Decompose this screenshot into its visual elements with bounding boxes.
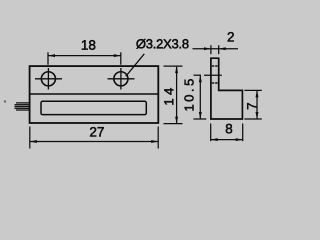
dimension 10.5 bbox=[193, 75, 221, 119]
dimension 2 label bbox=[228, 32, 234, 41]
front view body outline bbox=[30, 66, 159, 123]
side view hole hidden lines bbox=[212, 66, 218, 83]
side view L bracket bbox=[211, 58, 243, 119]
dimension 7 bbox=[244, 90, 261, 119]
dimension 18 label bbox=[82, 40, 95, 50]
dimension 2 bbox=[193, 45, 239, 54]
front view flange bend line bbox=[30, 93, 159, 95]
dimension 7 label bbox=[247, 103, 256, 109]
dimension 18 bbox=[48, 52, 121, 64]
dimension 27 label bbox=[90, 127, 104, 136]
slot window bbox=[41, 101, 146, 114]
mounting hole right bbox=[108, 68, 135, 90]
hole callout label bbox=[136, 39, 188, 49]
dimension 27 bbox=[30, 127, 158, 149]
wire leads bbox=[15, 103, 30, 110]
dimension 14 label bbox=[164, 88, 173, 105]
dimension 10.5 label bbox=[184, 79, 193, 110]
left edge speck bbox=[4, 100, 6, 102]
dimension 8 label bbox=[226, 124, 232, 134]
dimension 8 bbox=[211, 124, 243, 142]
dimension 14 bbox=[164, 66, 183, 124]
mounting hole left bbox=[35, 68, 62, 90]
hole callout leader bbox=[126, 54, 145, 77]
